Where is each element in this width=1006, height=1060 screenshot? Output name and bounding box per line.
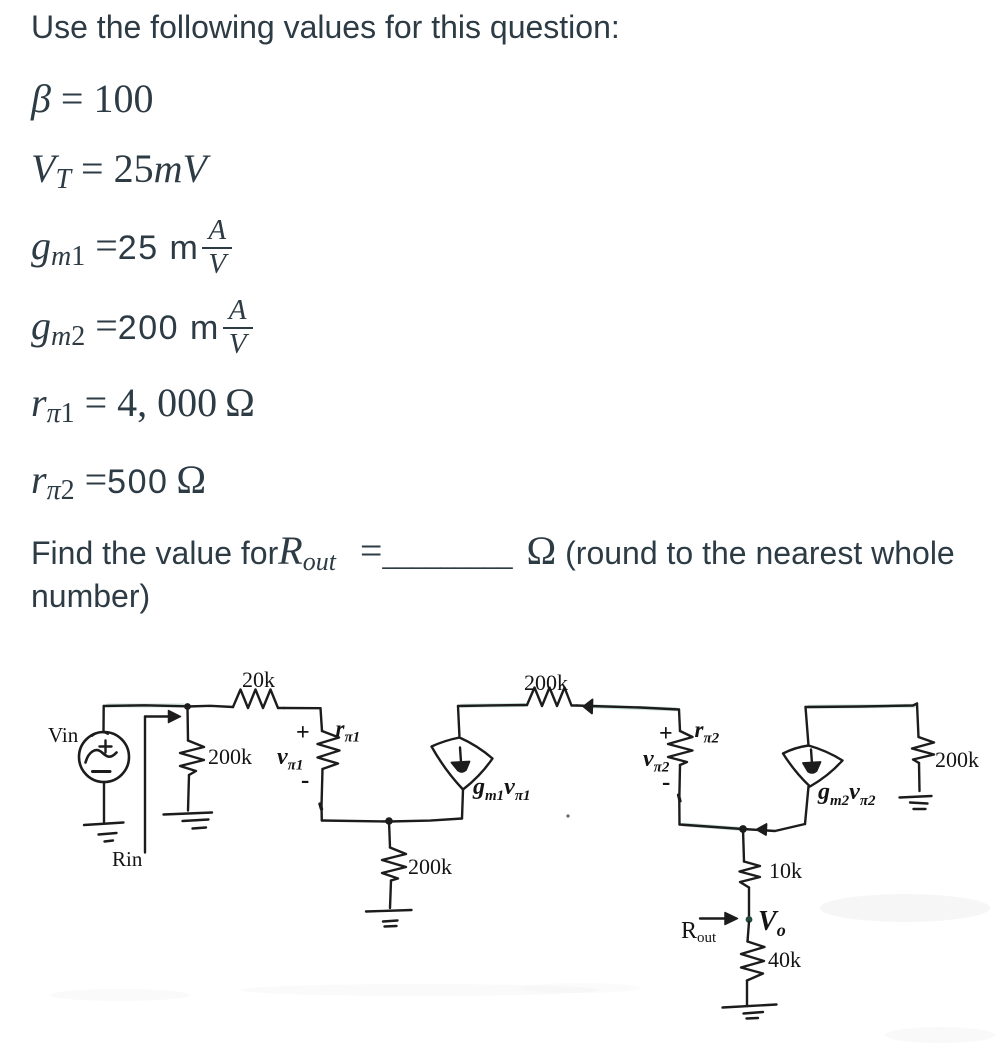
text line number	[31, 580, 150, 612]
Rin probe line	[144, 717, 146, 853]
wire Vin top lead	[102, 706, 105, 732]
svg-text:+: +	[296, 720, 310, 746]
svg-text:Vo: Vo	[758, 906, 786, 940]
source Vin circle	[79, 732, 129, 782]
dependent source gm1	[432, 738, 493, 790]
sine inside Vin	[86, 750, 117, 762]
wire arrow node to rpi2 corner	[590, 706, 679, 710]
wire 40k bottom lead	[746, 981, 748, 1007]
wire Vin bottom lead	[103, 782, 105, 822]
ground under Vin	[84, 823, 124, 826]
text line VT	[31, 149, 207, 189]
svg-text:rπ2: rπ2	[695, 717, 720, 747]
svg-text:20k: 20k	[242, 667, 275, 692]
svg-text:Rout: Rout	[681, 918, 717, 946]
resistor r_pi2	[668, 731, 693, 765]
wire node C to 10k	[743, 829, 744, 862]
svg-text:200k: 200k	[208, 744, 252, 769]
speck	[566, 814, 569, 817]
wire teal underlays	[108, 705, 914, 829]
svg-text:+: +	[659, 721, 673, 747]
text line rpi2	[31, 460, 206, 500]
wire rpi2 bottom lead	[678, 765, 681, 825]
minus inside Vin	[93, 770, 111, 773]
wire bottom rail stage1	[322, 821, 389, 822]
node Vo	[746, 916, 753, 923]
wire 200k first bottom lead	[188, 775, 189, 811]
svg-text:vπ1: vπ1	[277, 744, 303, 774]
wire corner down to rpi1	[321, 708, 323, 731]
junction arrow marker	[584, 700, 593, 714]
svg-text:Rin: Rin	[112, 847, 143, 871]
svg-text:gm2vπ2: gm2vπ2	[817, 779, 876, 809]
svg-text:40k: 40k	[768, 947, 801, 972]
text line gm1	[31, 216, 232, 280]
resistor 200k top middle	[527, 688, 577, 707]
wire top rail stage2 left	[458, 705, 527, 706]
svg-text:Vin: Vin	[48, 723, 79, 747]
resistor 10k	[740, 862, 761, 888]
wire node A to 200k first	[186, 707, 189, 741]
plus inside Vin	[104, 741, 106, 753]
wire 20k to corner	[284, 707, 321, 710]
svg-text:200k: 200k	[408, 854, 452, 879]
resistor 200k bottom middle	[382, 848, 406, 881]
wire gm1 bottom lead	[462, 790, 463, 819]
resistor 20k	[233, 690, 284, 709]
text line find	[31, 531, 955, 571]
node A (input node)	[184, 703, 191, 710]
wire corner down to rpi2	[679, 710, 680, 732]
wire top rail left	[104, 705, 187, 706]
resistor 40k	[741, 942, 765, 981]
junction tick rpi1 bottom	[320, 804, 322, 809]
ground under 200k first	[164, 813, 213, 815]
wire corner down to 200k right	[917, 704, 919, 738]
svg-text:rπ1: rπ1	[336, 716, 361, 746]
resistor r_pi1	[318, 731, 340, 769]
wire rpi1 bottom lead	[322, 769, 323, 821]
wire 200k to arrow node	[577, 704, 590, 707]
ground right	[900, 796, 932, 798]
svg-text:200k: 200k	[935, 747, 979, 772]
Rin arrowhead	[169, 711, 181, 723]
svg-text:200k: 200k	[524, 670, 568, 695]
arrow inside gm1	[460, 748, 461, 763]
wire rail to gm2 corner	[743, 824, 805, 831]
text line beta	[31, 79, 153, 119]
svg-text:-: -	[301, 767, 309, 794]
wire bottom rail stage2	[680, 825, 743, 830]
resistor 200k right	[912, 737, 934, 763]
wire corner up to gm2	[805, 787, 809, 825]
ground bottom	[723, 1005, 777, 1008]
resistor 200k first	[180, 741, 204, 776]
wire 200k bottom lead	[390, 881, 391, 909]
text line 1	[31, 11, 620, 43]
wire top rail right	[806, 704, 918, 708]
wire 200k right bottom lead	[918, 763, 921, 791]
text line gm2	[31, 296, 253, 360]
wire Vo to 40k	[748, 922, 750, 942]
wire rail to gm1	[389, 819, 462, 822]
wire node to 20k	[188, 706, 234, 707]
ground under 200k bottom	[366, 910, 412, 912]
wire 10k to Vo	[748, 888, 750, 918]
Rout arrow	[700, 917, 726, 919]
faint scan smudges	[50, 894, 995, 1043]
svg-text:gm1vπ1: gm1vπ1	[472, 774, 531, 804]
svg-text:-: -	[662, 769, 670, 796]
node C (output top node)	[739, 825, 747, 833]
svg-text:10k: 10k	[769, 858, 802, 883]
wire node B to 200k bottom	[389, 821, 390, 848]
node B (stage1 bottom node)	[385, 817, 393, 825]
wire gm2 top lead	[806, 707, 809, 746]
schematic labels	[48, 667, 979, 972]
dependent source gm2	[783, 746, 843, 787]
junction tick rpi2 lead	[679, 795, 681, 801]
arrow inside gm2	[811, 750, 812, 764]
text line rpi1	[31, 383, 255, 423]
wire gm1 top lead	[458, 706, 460, 738]
junction arrow on rail	[757, 824, 767, 835]
